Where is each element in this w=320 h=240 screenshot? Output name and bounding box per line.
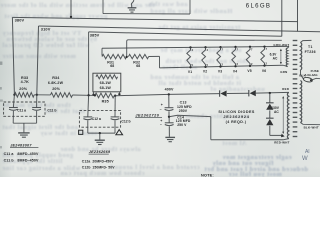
svg-text:2: 2	[237, 62, 239, 66]
svg-text:C12 a: C12 a	[92, 117, 101, 121]
svg-text:C12a: C12a	[82, 159, 91, 163]
svg-text:C11 a: C11 a	[17, 108, 26, 112]
svg-text:C11 a: C11 a	[4, 152, 15, 156]
svg-text:C11 b: C11 b	[47, 108, 56, 112]
svg-text:JE2483007: JE2483007	[10, 143, 32, 147]
svg-text:AC: AC	[273, 57, 278, 61]
svg-text:7: 7	[266, 47, 268, 51]
svg-text:8MFD–450V: 8MFD–450V	[17, 152, 39, 156]
svg-text:V4: V4	[233, 69, 237, 73]
svg-text:T1: T1	[308, 45, 313, 49]
svg-text:68-1W: 68-1W	[100, 86, 112, 90]
svg-text:SILICON DIODES: SILICON DIODES	[218, 110, 255, 114]
svg-text:NOTE:: NOTE:	[201, 173, 214, 177]
svg-text:FT236: FT236	[305, 50, 316, 54]
svg-text:JE2362669: JE2362669	[89, 150, 111, 154]
svg-text:7: 7	[237, 48, 239, 52]
svg-text:4.7K: 4.7K	[21, 80, 30, 84]
svg-text:20MFD-450V: 20MFD-450V	[92, 159, 114, 163]
svg-text:4: 4	[192, 48, 194, 52]
svg-text:5: 5	[192, 63, 194, 67]
svg-text:V3: V3	[218, 69, 222, 73]
svg-text:2: 2	[266, 62, 268, 66]
svg-text:68: 68	[136, 64, 140, 68]
svg-text:310V: 310V	[41, 26, 51, 31]
svg-text:V2: V2	[203, 70, 207, 74]
svg-text:C11 b: C11 b	[4, 158, 15, 162]
svg-text:2: 2	[222, 63, 224, 67]
svg-text:8MFD–450V: 8MFD–450V	[17, 158, 39, 162]
svg-text:C13: C13	[180, 101, 187, 105]
svg-text:5: 5	[207, 63, 209, 67]
svg-text:7: 7	[251, 47, 253, 51]
svg-text:AC: AC	[274, 110, 279, 114]
svg-text:GRN-WHT: GRN-WHT	[273, 43, 289, 47]
svg-text:JE2362720: JE2362720	[135, 113, 159, 117]
svg-text:4: 4	[207, 48, 209, 52]
svg-text:20%: 20%	[19, 87, 27, 91]
svg-text:C12b: C12b	[82, 165, 91, 169]
svg-text:2: 2	[251, 62, 253, 66]
svg-text:−: −	[160, 108, 162, 112]
svg-text:+: +	[160, 119, 162, 123]
svg-text:+: +	[161, 103, 163, 107]
svg-text:V6: V6	[262, 69, 266, 73]
svg-text:GRN: GRN	[280, 70, 287, 74]
svg-text:150MFD- 50V: 150MFD- 50V	[92, 165, 115, 169]
svg-text:68-1W: 68-1W	[100, 81, 112, 85]
svg-text:1.6A-3AG: 1.6A-3AG	[305, 73, 318, 77]
svg-text:RED-WHT: RED-WHT	[274, 140, 289, 144]
svg-text:385V: 385V	[90, 33, 100, 38]
svg-text:380V: 380V	[15, 17, 25, 22]
svg-text:250 V: 250 V	[177, 123, 187, 127]
svg-text:400V: 400V	[165, 87, 174, 91]
svg-text:−: −	[160, 123, 162, 127]
svg-text:R34: R34	[52, 76, 60, 80]
svg-text:7: 7	[222, 48, 224, 52]
svg-text:20%: 20%	[52, 87, 60, 91]
svg-text:V5: V5	[247, 69, 251, 73]
svg-text:V1: V1	[188, 70, 192, 74]
svg-text:6L6GB: 6L6GB	[246, 3, 271, 10]
svg-text:6.8K-2W: 6.8K-2W	[48, 81, 64, 85]
svg-text:BLK: BLK	[299, 74, 306, 78]
svg-text:RED: RED	[282, 87, 289, 91]
svg-text:68: 68	[110, 64, 114, 68]
svg-text:C12 b: C12 b	[121, 120, 130, 124]
svg-text:(4 REQD.): (4 REQD.)	[226, 120, 247, 124]
svg-text:BLK-WHT: BLK-WHT	[304, 125, 319, 129]
svg-text:250V: 250V	[179, 109, 188, 113]
svg-text:JE2362924: JE2362924	[223, 115, 249, 119]
svg-text:R35: R35	[102, 100, 109, 104]
